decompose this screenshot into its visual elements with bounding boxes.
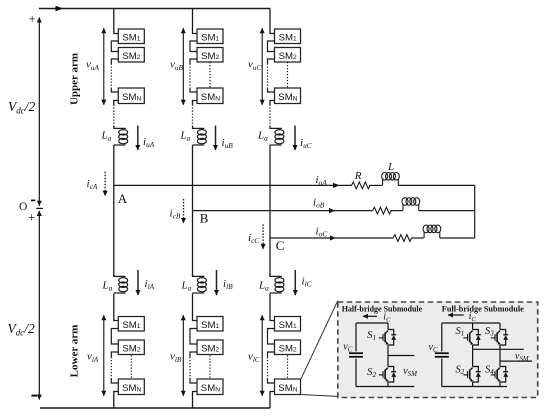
iuA current arrow <box>137 126 139 151</box>
HB capacitor branch lower wire <box>355 359 357 387</box>
PHASE LEG B <box>170 9 234 409</box>
HB leg emitter wire <box>387 382 389 387</box>
phase A output wire left segment <box>114 184 352 186</box>
HB leg mid wire <box>387 345 389 367</box>
FB top rail <box>442 322 500 324</box>
capacitor C FB <box>435 353 449 357</box>
IGBT S1 FB <box>463 330 480 346</box>
svg-text:vlB: vlB <box>170 351 182 364</box>
svg-text:ilC: ilC <box>302 276 312 289</box>
wire coil to lower arm phase C <box>269 145 271 276</box>
Vdc/2 lower measurement arrow <box>38 211 40 400</box>
phase C output wire left segment <box>270 237 393 239</box>
svg-text:+: + <box>29 11 36 26</box>
HB top rail <box>356 322 388 324</box>
svg-text:ioA: ioA <box>316 174 328 187</box>
bottom DC bus wire <box>40 407 270 409</box>
icB circulating current dashed arrow <box>183 199 185 223</box>
ilB current arrow <box>216 270 218 295</box>
top DC bus wire <box>39 8 270 10</box>
svg-text:La: La <box>181 280 192 293</box>
vuB measurement arrow <box>182 28 184 105</box>
iC arrow HB <box>363 315 377 317</box>
arm inductor La upper C <box>270 126 284 145</box>
callout line upper from SMN C to inset corner <box>301 301 338 379</box>
SUBMODULE INSET <box>301 301 538 398</box>
ilA current arrow <box>137 270 139 295</box>
svg-text:iuB: iuB <box>222 137 234 150</box>
iuB current arrow <box>215 126 217 151</box>
HB leg collector wire <box>387 323 389 330</box>
svg-text:La: La <box>102 280 113 293</box>
phase B wire to right bus <box>419 210 475 212</box>
svg-text:ilB: ilB <box>223 278 233 291</box>
svg-text:iuA: iuA <box>143 136 155 149</box>
AC OUTPUT NETWORK <box>114 161 475 253</box>
FB bottom rail <box>442 386 507 388</box>
dc current arrow on top bus <box>56 6 64 11</box>
dotted continuation SM2 to SMN center phase B upper <box>209 62 211 88</box>
svg-text:Vdc/2: Vdc/2 <box>8 321 36 338</box>
svg-text:icC: icC <box>248 232 259 245</box>
phase B output wire left segment <box>193 210 373 212</box>
arm inductor La upper A <box>114 126 128 145</box>
vuC measurement arrow <box>261 28 263 105</box>
svg-text:vlA: vlA <box>87 351 99 364</box>
svg-text:Upper arm: Upper arm <box>69 53 81 105</box>
svg-text:vuA: vuA <box>86 59 99 72</box>
resistor R phase B <box>373 207 392 214</box>
iC arrow FB <box>448 314 464 316</box>
svg-text:L: L <box>387 161 394 173</box>
inset dashed box background <box>338 302 538 398</box>
svg-text:Lower arm: Lower arm <box>69 325 81 378</box>
IGBT S2 HB <box>379 367 396 383</box>
FB right leg emitter wire <box>499 382 501 387</box>
upper arm SM chain phase A (SM1 SM2 SMN) <box>111 9 144 127</box>
icC circulating current dashed arrow <box>262 224 264 249</box>
svg-text:+: + <box>28 210 35 225</box>
inductor L phase C <box>423 225 441 238</box>
vlC measurement arrow <box>261 315 263 396</box>
phase C wire to right bus <box>440 237 475 239</box>
PHASE LEG C <box>248 9 312 409</box>
svg-text:B: B <box>200 211 209 226</box>
svg-text:ioB: ioB <box>313 197 325 210</box>
svg-text:La: La <box>101 130 112 143</box>
HB bottom rail <box>356 386 414 388</box>
HB output top stub <box>388 355 414 357</box>
minus bottom-left <box>31 395 37 397</box>
IGBT S1 HB <box>379 330 396 346</box>
svg-text:Full-bridge Submodule: Full-bridge Submodule <box>442 304 524 314</box>
minus above O <box>31 199 35 201</box>
FB left leg emitter wire <box>472 382 474 387</box>
wire R to L phase A <box>369 184 382 186</box>
upper arm SM chain phase B <box>190 9 223 127</box>
svg-text:icA: icA <box>87 178 98 191</box>
ilC current arrow <box>294 270 296 295</box>
wire R to L phase C <box>411 237 424 239</box>
FB output upper stub <box>473 348 524 350</box>
capacitor C HB <box>349 353 363 357</box>
ioA arrowhead <box>333 183 340 188</box>
svg-text:La: La <box>258 280 269 293</box>
resistor R phase A <box>352 182 371 189</box>
callout line lower from SMN C to inset corner <box>301 395 338 397</box>
FB left leg collector wire <box>472 323 474 330</box>
svg-text:La: La <box>257 130 268 143</box>
icA circulating current dashed arrow <box>104 172 106 196</box>
svg-text:O: O <box>19 201 27 213</box>
lower arm inductor La phase A <box>114 274 128 293</box>
svg-text:vuC: vuC <box>248 59 261 72</box>
svg-text:ilA: ilA <box>145 278 155 291</box>
ioB arrowhead <box>329 208 335 213</box>
lower arm SM chain phase A <box>111 294 144 409</box>
FB capacitor branch lower wire <box>441 359 443 387</box>
node O tick <box>36 207 43 209</box>
svg-text:iuC: iuC <box>300 137 312 150</box>
inductor L phase B <box>402 198 420 211</box>
ioC arrowhead <box>330 235 335 240</box>
vlB measurement arrow <box>182 315 184 396</box>
svg-text:A: A <box>118 191 128 206</box>
lower arm inductor La phase B <box>193 274 207 293</box>
inductor L phase A <box>382 173 400 186</box>
lower arm SM chain phase C <box>268 294 301 409</box>
svg-text:R: R <box>354 170 362 182</box>
upper arm SM chain phase C <box>268 9 301 127</box>
IGBT S3 FB <box>491 330 508 346</box>
PHASE LEG A <box>86 9 155 409</box>
svg-text:C: C <box>276 238 285 253</box>
svg-text:ioC: ioC <box>316 226 328 239</box>
phase A wire to right bus <box>398 184 474 186</box>
vuA measurement arrow <box>103 28 105 105</box>
svg-text:vlC: vlC <box>248 351 260 364</box>
FB right leg mid wire <box>499 345 501 367</box>
dotted continuation SM2 to SMN center phase C upper <box>287 62 289 88</box>
svg-text:vuB: vuB <box>170 59 183 72</box>
right common bus vertical wire <box>474 185 476 238</box>
vlA measurement arrow <box>103 315 105 396</box>
FB output lower stub <box>500 360 532 362</box>
MAIN SCHEMATIC <box>8 6 271 408</box>
wire coil to lower arm phase B <box>192 145 194 276</box>
IGBT S2 FB <box>463 367 480 383</box>
Vdc/2 upper measurement arrow <box>38 18 40 206</box>
svg-text:La: La <box>180 130 191 143</box>
wire coil to phase tap A <box>113 145 115 276</box>
arm inductor La upper B <box>193 126 207 145</box>
FB right leg collector wire <box>499 323 501 330</box>
lower arm inductor La phase C <box>270 274 284 293</box>
wire R to L phase B <box>391 210 403 212</box>
iuC current arrow <box>294 126 296 151</box>
IGBT S4 FB <box>491 367 508 383</box>
svg-text:Half-bridge Submodule: Half-bridge Submodule <box>342 304 423 314</box>
HB capacitor branch upper wire <box>355 323 357 351</box>
svg-text:Vdc/2: Vdc/2 <box>8 99 36 116</box>
FB capacitor branch upper wire <box>441 323 443 351</box>
resistor R phase C <box>393 235 412 242</box>
FB left leg mid wire <box>472 345 474 367</box>
svg-text:icB: icB <box>170 208 181 221</box>
lower arm SM chain phase B <box>190 294 223 409</box>
